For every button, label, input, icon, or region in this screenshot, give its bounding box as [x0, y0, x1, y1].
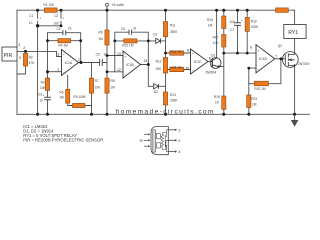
- sensor resistor zigzag: [161, 133, 163, 150]
- capacitor C3 plates: [45, 97, 51, 100]
- wire R20 feedback: [249, 59, 281, 84]
- wire PIR pin2 to IC1A: [17, 51, 62, 56]
- svg-text:10K: 10K: [213, 41, 220, 45]
- ground symbol: [292, 114, 298, 126]
- op-amp U1C: [191, 49, 209, 74]
- svg-text:+5 volts: +5 volts: [111, 3, 124, 7]
- svg-text:300K: 300K: [251, 25, 259, 29]
- svg-text:1M: 1M: [208, 24, 213, 28]
- wire Q1 emitter to R18: [220, 66, 224, 68]
- op-amp U1D: [256, 45, 275, 73]
- svg-text:Q1: Q1: [211, 53, 215, 57]
- relay RY1: [284, 25, 306, 39]
- sensor pin 2 wire: [168, 139, 175, 141]
- svg-text:R13: R13: [170, 93, 176, 97]
- sensor FET: [162, 130, 168, 152]
- svg-text:C7: C7: [230, 28, 234, 32]
- resistor R20: [254, 81, 268, 86]
- svg-text:2: 2: [178, 139, 180, 143]
- wire R6 R8 bias chain: [106, 10, 108, 114]
- svg-text:1: 1: [178, 128, 180, 132]
- wire IC1A inverting input: [48, 71, 62, 73]
- svg-text:D2: D2: [154, 90, 158, 94]
- svg-text:+: +: [125, 55, 127, 59]
- svg-text:IC1B: IC1B: [126, 63, 134, 67]
- resistor R17: [222, 35, 226, 48]
- svg-text:1: 1: [18, 43, 20, 47]
- svg-text:250K: 250K: [170, 30, 178, 34]
- sensor element top: [157, 134, 161, 139]
- svg-text:RY1: RY1: [288, 30, 298, 36]
- svg-text:9: 9: [187, 49, 189, 53]
- wire R15 to IC1C: [166, 69, 191, 71]
- svg-text:R15 1M: R15 1M: [170, 65, 182, 69]
- resistor R5: [66, 89, 70, 103]
- svg-text:R21: R21: [251, 97, 257, 101]
- svg-text:7: 7: [275, 54, 277, 58]
- sensor window: [153, 130, 156, 152]
- svg-text:2: 2: [57, 68, 59, 72]
- svg-text:R6: R6: [98, 31, 102, 35]
- svg-text:R5: R5: [59, 90, 63, 94]
- resistor R7: [89, 78, 93, 93]
- wire R5 branch: [68, 75, 92, 105]
- svg-text:.01: .01: [132, 27, 137, 31]
- capacitor C6 plates: [129, 30, 132, 34]
- resistor R1: [44, 8, 57, 12]
- sensor pin 3 wire: [168, 151, 175, 153]
- wire C1 branch: [38, 10, 61, 114]
- resistor R8: [105, 78, 109, 93]
- svg-text:2N3904: 2N3904: [205, 71, 216, 75]
- resistor R4: [58, 39, 71, 43]
- svg-text:R14 1M: R14 1M: [170, 50, 182, 54]
- svg-text:PIR: PIR: [4, 53, 13, 59]
- svg-text:+: +: [63, 17, 65, 21]
- svg-text:12: 12: [117, 68, 121, 72]
- sensor element bottom: [157, 143, 161, 148]
- transistor Q2: [282, 52, 298, 68]
- svg-text:−: −: [125, 73, 127, 77]
- svg-text:1M: 1M: [252, 103, 257, 107]
- svg-text:R2: R2: [29, 55, 33, 59]
- wire PIR pin1 to rail: [16, 10, 18, 47]
- wire RY1 top feed: [294, 10, 296, 24]
- resistor R10: [124, 39, 137, 43]
- PIR sensor inset: [151, 126, 175, 154]
- svg-text:Q2: Q2: [278, 44, 282, 48]
- svg-text:−: −: [258, 68, 260, 72]
- svg-text:R9 100K: R9 100K: [73, 95, 86, 99]
- svg-text:R10 1M: R10 1M: [122, 44, 134, 48]
- svg-text:+: +: [192, 52, 194, 56]
- sensor pin arrows: [175, 129, 177, 153]
- svg-text:PIR = RE200B PYROELECTRIC SENS: PIR = RE200B PYROELECTRIC SENSOR: [23, 138, 103, 143]
- svg-text:20K: 20K: [156, 67, 163, 71]
- svg-text:IC1C: IC1C: [194, 60, 202, 64]
- resistor R19: [245, 17, 249, 31]
- svg-text:2: 2: [23, 46, 25, 50]
- svg-text:homemade-circuits.com: homemade-circuits.com: [116, 108, 215, 115]
- svg-text:+: +: [39, 17, 41, 21]
- svg-text:R11: R11: [170, 23, 176, 27]
- wire IC1D output to Q2 gate: [275, 58, 283, 60]
- svg-text:10: 10: [29, 21, 33, 25]
- svg-text:C6: C6: [121, 27, 125, 31]
- wire Q1 collector to rail: [216, 10, 218, 58]
- svg-text:R19: R19: [251, 20, 257, 24]
- svg-text:D1: D1: [153, 33, 157, 37]
- wire R14 to IC1C: [166, 52, 191, 54]
- svg-text:1: 1: [78, 58, 80, 62]
- diode D2: [154, 84, 159, 89]
- svg-text:10: 10: [39, 99, 43, 103]
- svg-text:1M: 1M: [110, 85, 115, 89]
- svg-text:C2: C2: [54, 14, 58, 18]
- svg-text:10: 10: [185, 66, 189, 70]
- svg-text:1M: 1M: [59, 95, 64, 99]
- wire threshold node: [224, 52, 256, 54]
- sensor can: [151, 126, 168, 154]
- resistor R2: [23, 54, 27, 67]
- wire IC1D inverting input: [249, 68, 256, 95]
- capacitor C4 plates: [63, 31, 66, 35]
- wire ground bottom rail: [17, 113, 310, 115]
- wire Q2 drain to RY1: [294, 39, 296, 53]
- op-amp U1B: [123, 51, 141, 78]
- svg-text:14: 14: [144, 59, 148, 63]
- svg-text:R20 1M: R20 1M: [254, 87, 266, 91]
- svg-text:R4 1M: R4 1M: [58, 43, 68, 47]
- wire R21 to ground: [248, 108, 250, 115]
- svg-text:R1 10K: R1 10K: [44, 3, 56, 7]
- svg-text:R3: R3: [41, 80, 45, 84]
- wire feedback box B: [115, 32, 149, 72]
- svg-text:IC1D: IC1D: [259, 57, 267, 61]
- IR arrows: [144, 133, 151, 147]
- resistor R12: [163, 58, 167, 74]
- op-amp U1A: [62, 50, 79, 76]
- svg-text:1M: 1M: [98, 37, 103, 41]
- resistor R6: [105, 30, 109, 45]
- PIR box: [2, 47, 17, 61]
- wire D2 path: [148, 85, 165, 87]
- wire R11 R12 R13 divider chain: [165, 10, 167, 114]
- svg-text:+: +: [258, 49, 260, 53]
- svg-text:R12: R12: [156, 60, 162, 64]
- diode D1: [156, 38, 161, 43]
- svg-text:C1: C1: [29, 14, 33, 18]
- svg-text:10K: 10K: [95, 85, 102, 89]
- svg-text:−: −: [192, 69, 194, 73]
- svg-text:100: 100: [229, 20, 235, 24]
- wire IC1C output to Q1 base: [208, 61, 212, 63]
- svg-text:100: 100: [54, 21, 60, 25]
- resistor R14: [170, 51, 184, 55]
- wire R2 branch: [17, 51, 26, 74]
- svg-text:C4: C4: [57, 27, 61, 31]
- wire PIR pin3 to ground: [16, 61, 18, 114]
- wire R19 branch: [246, 10, 248, 53]
- wire +5 volts terminal: [106, 6, 108, 10]
- resistor R18: [222, 96, 226, 109]
- svg-text:R16: R16: [207, 18, 213, 22]
- wire Q2 source to ground: [294, 66, 296, 114]
- svg-text:.01: .01: [67, 27, 72, 31]
- svg-text:+: +: [241, 19, 243, 23]
- svg-text:3: 3: [178, 150, 180, 154]
- resistor R15: [170, 67, 184, 71]
- svg-text:13: 13: [117, 52, 121, 56]
- resistor R16: [222, 16, 226, 29]
- svg-text:R17: R17: [213, 36, 219, 40]
- wire C7 branch: [237, 10, 239, 53]
- wire D1 path: [148, 40, 165, 42]
- svg-text:R8: R8: [110, 79, 114, 83]
- resistor R9: [73, 103, 86, 107]
- resistor R3: [45, 78, 49, 91]
- svg-text:−: −: [63, 71, 65, 75]
- wire IC1B noninverting input: [107, 55, 123, 57]
- wire IC1B output: [141, 41, 149, 86]
- svg-text:2N7000: 2N7000: [298, 62, 309, 66]
- resistor R21: [247, 95, 251, 108]
- wire IC1B inverting input: [107, 71, 123, 73]
- transistor Q1: [210, 58, 221, 69]
- wire R7 branch: [91, 63, 93, 115]
- svg-text:6: 6: [250, 46, 252, 50]
- svg-text:+: +: [63, 53, 65, 57]
- svg-text:IC1A: IC1A: [65, 61, 73, 65]
- node +5 volts terminal: [106, 3, 124, 7]
- svg-text:3: 3: [57, 52, 59, 56]
- resistor R13: [163, 92, 167, 105]
- svg-text:3: 3: [19, 56, 21, 60]
- resistor relay feed: [276, 8, 289, 12]
- svg-text:C5: C5: [96, 52, 100, 56]
- sensor pin 1 wire: [168, 129, 175, 131]
- resistor R11: [163, 22, 167, 37]
- svg-text:10K: 10K: [40, 86, 47, 90]
- wire R3 C3 branch: [47, 72, 49, 115]
- wire R16 R17 R18 chain: [223, 10, 225, 114]
- capacitor C5 plates: [100, 60, 103, 66]
- svg-text:200K: 200K: [170, 99, 178, 103]
- svg-text:10: 10: [103, 52, 107, 56]
- svg-text:R7: R7: [95, 79, 99, 83]
- svg-text:47K: 47K: [29, 61, 36, 65]
- svg-text:R18: R18: [214, 95, 220, 99]
- svg-text:+: +: [42, 93, 44, 97]
- capacitor C7 plates: [235, 23, 241, 26]
- wire +5V top rail: [17, 9, 295, 11]
- wire IC1A output to C5: [79, 62, 108, 64]
- wire feedback box A: [48, 33, 81, 72]
